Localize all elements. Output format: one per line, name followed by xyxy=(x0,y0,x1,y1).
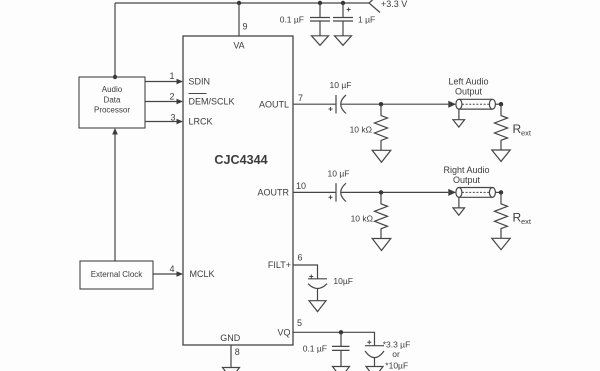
node: AOUTR junction xyxy=(379,190,383,194)
capacitor C 0.1uF (VQ) xyxy=(303,332,350,366)
svg-text:1 µF: 1 µF xyxy=(358,15,375,25)
wire: cap to junction to output xyxy=(341,103,448,105)
U1 pin label DEM/SCLK (overline on DEM) xyxy=(189,94,235,107)
node: junction rail/1uF xyxy=(341,1,345,5)
wire: External Clock to Audio Data Processor xyxy=(114,134,116,261)
svg-text:10: 10 xyxy=(296,181,306,191)
capacitor C 1uF (VA bulk) xyxy=(333,3,375,36)
IC U1 CJC4344 body xyxy=(183,36,293,345)
ground (Rext right) xyxy=(492,238,510,249)
svg-text:External Clock: External Clock xyxy=(91,270,144,279)
svg-text:ext: ext xyxy=(521,217,532,226)
wire: +3.3V top rail xyxy=(115,2,369,4)
ground (J2 shield) xyxy=(453,197,465,215)
node: J1 output junction xyxy=(499,102,503,106)
ground (VQ second cap) xyxy=(366,367,383,371)
wire: FILT+ pin 6 to cap xyxy=(293,265,318,279)
svg-text:SDIN: SDIN xyxy=(189,77,211,87)
ground (VQ 0.1uF) xyxy=(333,367,350,371)
node: J2 output junction xyxy=(499,190,503,194)
svg-text:MCLK: MCLK xyxy=(190,269,215,279)
resistor 10 kOhm (AOUTR load) xyxy=(351,192,388,238)
node: VQ junction xyxy=(339,330,343,334)
ground (Rext left) xyxy=(492,150,510,161)
wire: VQ pin 5 run xyxy=(293,332,375,345)
svg-text:10 kΩ: 10 kΩ xyxy=(350,125,372,135)
capacitor C 10uF (FILT+) xyxy=(308,275,353,289)
svg-text:AOUTR: AOUTR xyxy=(258,188,290,198)
svg-text:DEM/SCLK: DEM/SCLK xyxy=(189,97,235,107)
svg-text:8: 8 xyxy=(235,347,240,357)
svg-text:10 kΩ: 10 kΩ xyxy=(351,214,373,224)
svg-text:1: 1 xyxy=(169,71,174,81)
svg-text:5: 5 xyxy=(297,318,302,328)
node: junction rail/VA drop xyxy=(237,1,241,5)
svg-text:Output: Output xyxy=(455,87,483,97)
wire: cap to junction to output (right) xyxy=(341,191,448,193)
svg-text:10 µF: 10 µF xyxy=(330,80,352,90)
svg-text:AOUTL: AOUTL xyxy=(259,99,289,109)
svg-text:Output: Output xyxy=(453,175,481,185)
block: Audio Data Processor xyxy=(79,77,145,128)
ground (AOUTL 10k) xyxy=(372,150,391,162)
svg-text:or: or xyxy=(392,349,400,359)
wire: LRCK (pin 3) xyxy=(145,121,177,123)
node: junction rail/0.1uF xyxy=(318,1,322,5)
power flag +3.3V xyxy=(369,0,380,13)
wire: MCLK (pin 4) xyxy=(153,273,177,275)
svg-text:10µF: 10µF xyxy=(333,276,353,286)
wire: SDIN (pin 1) xyxy=(145,81,177,83)
capacitor C 10uF (AOUTL coupling) xyxy=(329,80,352,113)
svg-text:LRCK: LRCK xyxy=(189,117,213,127)
capacitor C 0.1uF (VA decoupling) xyxy=(280,3,330,36)
svg-text:Audio: Audio xyxy=(102,85,123,94)
node: AOUTL junction xyxy=(379,102,383,106)
svg-text:4: 4 xyxy=(169,264,174,274)
svg-text:6: 6 xyxy=(298,253,303,263)
svg-text:ext: ext xyxy=(521,129,532,138)
svg-text:3: 3 xyxy=(170,112,175,122)
svg-text:CJC4344: CJC4344 xyxy=(214,153,267,167)
wire: AOUTL pin 7 to coupling cap xyxy=(293,103,336,105)
svg-text:0.1 µF: 0.1 µF xyxy=(280,15,304,25)
wire: AOUTR pin 10 to coupling cap xyxy=(293,191,336,193)
ground (AOUTR 10k) xyxy=(372,239,391,251)
wire: rail drop to Audio Data Processor xyxy=(114,3,116,77)
svg-text:Left Audio: Left Audio xyxy=(448,77,488,87)
svg-text:VQ: VQ xyxy=(277,328,290,338)
svg-text:*3.3 µF: *3.3 µF xyxy=(383,340,411,350)
resistor Rext (right) xyxy=(495,192,532,238)
node: junction at Audio Data Processor top xyxy=(113,75,117,79)
svg-text:10 µF: 10 µF xyxy=(328,169,350,179)
svg-text:2: 2 xyxy=(169,92,174,102)
label: Left Audio Output xyxy=(448,77,488,97)
ground (GND pin) xyxy=(223,368,240,371)
svg-text:GND: GND xyxy=(220,333,241,343)
connector J1 Left Audio Output xyxy=(448,99,501,109)
svg-text:Processor: Processor xyxy=(94,106,130,115)
capacitor C 3.3uF/10uF (VQ) xyxy=(365,340,410,371)
ground (FILT+ cap) xyxy=(309,301,326,312)
svg-text:+3.3 V: +3.3 V xyxy=(381,0,407,9)
resistor Rext (left) xyxy=(495,104,532,150)
svg-text:FILT+: FILT+ xyxy=(268,260,291,270)
label: Right Audio Output xyxy=(443,165,489,185)
svg-text:7: 7 xyxy=(298,93,303,103)
svg-text:9: 9 xyxy=(243,22,248,32)
ground (1uF) xyxy=(335,36,352,46)
ground (0.1uF) xyxy=(312,36,329,46)
svg-text:0.1 µF: 0.1 µF xyxy=(303,344,327,354)
svg-text:Right Audio: Right Audio xyxy=(443,165,489,175)
wire: FILT+ cap to ground xyxy=(317,288,319,300)
ground (J1 shield) xyxy=(453,109,465,127)
block: External Clock xyxy=(80,261,153,289)
svg-text:Data: Data xyxy=(104,95,121,104)
svg-text:VA: VA xyxy=(233,40,244,50)
wire: DEM/SCLK (pin 2) xyxy=(145,101,177,103)
svg-text:*10µF: *10µF xyxy=(385,361,408,371)
wire: rail drop to VA pin 9 xyxy=(238,3,240,36)
wire: GND pin 8 xyxy=(230,345,232,368)
wire: VQ second cap to ground xyxy=(374,358,376,367)
resistor 10 kOhm (AOUTL load) xyxy=(350,104,388,150)
connector J2 Right Audio Output xyxy=(448,188,501,198)
capacitor C 10uF (AOUTR coupling) xyxy=(328,169,350,202)
